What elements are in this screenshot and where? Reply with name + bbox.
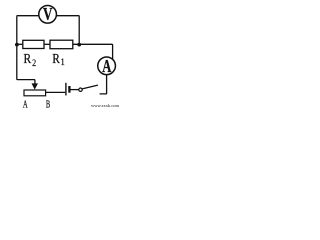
wire slider arm horizontal: [18, 79, 35, 81]
wire resistor row right to ammeter: [73, 44, 113, 59]
wire ammeter bottom L: [100, 75, 107, 94]
ammeter A: [98, 57, 116, 77]
svg-text:A: A: [23, 98, 28, 110]
wire top right of voltmeter: [56, 16, 79, 45]
resistor R2: [23, 40, 44, 48]
svg-text:V: V: [43, 5, 52, 24]
svg-text:R: R: [24, 51, 32, 66]
resistor R1: [50, 40, 73, 49]
wire rheostat to battery: [45, 91, 65, 93]
svg-text:B: B: [46, 98, 50, 110]
wire left vertical: [16, 16, 19, 79]
node junction left: [15, 43, 19, 47]
voltmeter V: [39, 5, 57, 24]
wire slider arm vertical: [34, 80, 36, 84]
rheostat slider arrowhead: [32, 83, 39, 89]
wire resistor row left: [17, 43, 23, 45]
switch pivot: [79, 88, 82, 91]
battery long plate: [65, 83, 67, 96]
svg-text:www.zxxk.com: www.zxxk.com: [91, 103, 120, 108]
rheostat box: [24, 90, 46, 96]
wire between R2 and R1: [44, 43, 50, 45]
svg-text:R: R: [52, 51, 60, 66]
svg-text:2: 2: [32, 57, 36, 68]
switch lever: [82, 85, 98, 89]
wire battery to switch: [70, 89, 78, 91]
svg-text:1: 1: [61, 57, 65, 68]
svg-text:A: A: [102, 57, 112, 77]
node junction right: [77, 43, 81, 47]
battery short plate: [68, 86, 70, 93]
wire top-left horizontal: [17, 15, 39, 18]
